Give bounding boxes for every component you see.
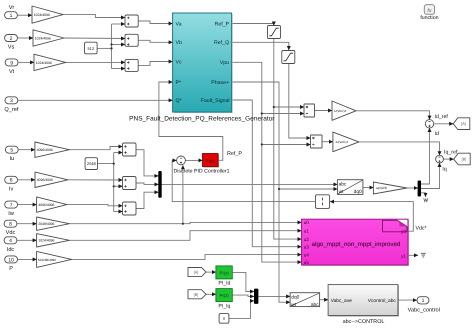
- svg-text:u5: u5: [304, 260, 310, 265]
- svg-text:PNS_Fault_Detection_PQ_Referen: PNS_Fault_Detection_PQ_References_Genera…: [129, 116, 275, 123]
- svg-text:524288/4096: 524288/4096: [38, 258, 56, 262]
- svg-text:P: P: [9, 266, 13, 272]
- svg-text:u0: u0: [304, 220, 310, 225]
- svg-text:1024/4096: 1024/4096: [38, 239, 54, 243]
- svg-text:Vc: Vc: [176, 59, 182, 65]
- svg-text:Id_ref: Id_ref: [435, 114, 449, 120]
- svg-text:Discrete PID Controller1: Discrete PID Controller1: [174, 169, 230, 175]
- svg-text:u1: u1: [304, 228, 310, 233]
- svg-text:Vt: Vt: [9, 69, 15, 75]
- svg-text:Q_ref: Q_ref: [4, 106, 18, 113]
- svg-text:4096/4096: 4096/4096: [37, 148, 53, 152]
- svg-text:function: function: [420, 15, 438, 21]
- svg-text:Vabc_ave: Vabc_ave: [331, 298, 352, 304]
- svg-text:u3: u3: [304, 244, 310, 249]
- svg-text:1: 1: [10, 13, 13, 19]
- svg-text:Vpu: Vpu: [220, 60, 229, 66]
- svg-text:1/(VAC)4: 1/(VAC)4: [334, 109, 346, 113]
- svg-text:y1: y1: [401, 253, 406, 258]
- svg-text:wt: wt: [291, 302, 296, 308]
- svg-text:Va: Va: [176, 21, 182, 27]
- svg-text:10: 10: [8, 257, 14, 263]
- svg-text:1: 1: [422, 298, 425, 304]
- svg-text:abc: abc: [311, 302, 319, 308]
- svg-text:Id: Id: [435, 131, 439, 137]
- svg-text:5: 5: [10, 148, 13, 154]
- svg-text:algo_mppt_non_mppt_improved: algo_mppt_non_mppt_improved: [312, 241, 401, 248]
- svg-text:Iq: Iq: [442, 167, 446, 173]
- svg-text:[A]: [A]: [194, 271, 199, 275]
- svg-text:4: 4: [9, 238, 12, 244]
- svg-text:PI(z): PI(z): [219, 271, 229, 276]
- svg-text:4096/4096: 4096/4096: [37, 178, 53, 182]
- svg-text:fx: fx: [427, 8, 431, 14]
- svg-text:P*: P*: [176, 80, 181, 86]
- svg-text:u2: u2: [304, 237, 310, 242]
- svg-text:2048: 2048: [87, 161, 97, 166]
- svg-text:Vr: Vr: [9, 5, 15, 11]
- svg-text:Vdc*: Vdc*: [416, 226, 427, 232]
- svg-text:1024/4096: 1024/4096: [34, 13, 50, 17]
- svg-text:9: 9: [10, 60, 13, 66]
- svg-text:PI_Id: PI_Id: [218, 281, 230, 287]
- svg-text:Ref_Q: Ref_Q: [214, 40, 229, 46]
- svg-text:Iv: Iv: [9, 186, 14, 192]
- svg-text:Phase+: Phase+: [211, 80, 229, 86]
- svg-text:2: 2: [10, 36, 13, 42]
- svg-text:Vs: Vs: [8, 45, 15, 51]
- svg-text:6: 6: [10, 178, 13, 184]
- svg-text:2048/4096: 2048/4096: [38, 222, 54, 226]
- svg-text:-1/(VAC)4: -1/(VAC)4: [335, 140, 348, 144]
- svg-text:Vdc: Vdc: [6, 229, 16, 236]
- svg-text:dq0: dq0: [291, 295, 299, 301]
- svg-text:wt: wt: [339, 189, 344, 195]
- svg-text:Idc: Idc: [7, 246, 15, 253]
- svg-text:abc-->CONTROL: abc-->CONTROL: [343, 319, 385, 325]
- svg-text:1024/4096: 1024/4096: [36, 61, 52, 65]
- svg-text:Iq_ref: Iq_ref: [444, 150, 458, 156]
- svg-text:3: 3: [10, 98, 13, 104]
- svg-text:[B]: [B]: [462, 158, 467, 162]
- svg-text:7: 7: [10, 203, 13, 209]
- svg-text:[B]: [B]: [194, 293, 199, 297]
- svg-text:4096/4096: 4096/4096: [38, 203, 54, 207]
- svg-text:Iu: Iu: [9, 156, 14, 162]
- svg-text:Vabc_control: Vabc_control: [408, 306, 440, 313]
- svg-text:Iw: Iw: [8, 211, 15, 217]
- svg-text:PI_Iq: PI_Iq: [218, 303, 230, 309]
- svg-text:PI(z): PI(z): [206, 158, 216, 163]
- svg-text:[A]: [A]: [461, 122, 466, 126]
- svg-text:1024/4096: 1024/4096: [35, 36, 51, 40]
- svg-text:abc: abc: [339, 182, 347, 188]
- svg-text:8: 8: [9, 222, 12, 228]
- svg-text:Q*: Q*: [176, 98, 182, 104]
- svg-text:u4: u4: [304, 252, 310, 257]
- svg-text:Ref_P: Ref_P: [227, 151, 242, 157]
- svg-text:dq0: dq0: [354, 189, 362, 195]
- svg-text:sqrt(2/3): sqrt(2/3): [376, 186, 387, 190]
- svg-text:PI(z): PI(z): [219, 293, 229, 298]
- svg-text:Vcontrol_abc: Vcontrol_abc: [368, 298, 397, 304]
- svg-text:512: 512: [87, 46, 94, 51]
- svg-text:Fault_Signal: Fault_Signal: [201, 98, 230, 104]
- svg-text:Vb: Vb: [176, 40, 182, 46]
- svg-text:Ref_P: Ref_P: [215, 21, 230, 27]
